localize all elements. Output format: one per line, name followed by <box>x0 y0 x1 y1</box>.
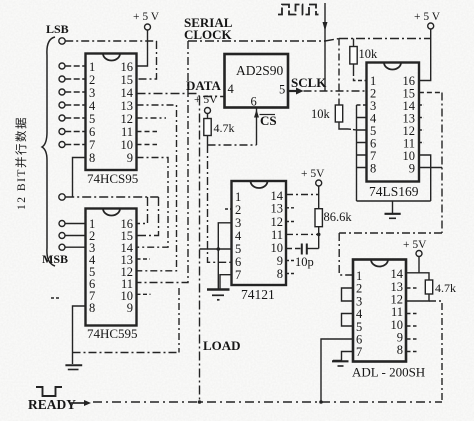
chip U5 74121 body <box>232 181 287 285</box>
wire U6 pin6 to READY rail <box>321 339 353 402</box>
ground U5 <box>207 288 230 290</box>
chip U2 pin numbers left 1-8 <box>89 217 96 315</box>
svg-text:14: 14 <box>391 267 404 281</box>
svg-text:MSB: MSB <box>42 252 68 266</box>
resistor R5 4.7k <box>425 280 432 294</box>
wire +5V to U4 pin16 <box>419 29 431 80</box>
svg-text:3: 3 <box>235 216 241 230</box>
wire U1 pin8 down to serial node line <box>73 158 86 198</box>
stub U2 pin13 <box>137 258 151 260</box>
wire U5 pin7 to ground <box>220 275 232 289</box>
wire SCLK to U4 pin2 <box>304 90 367 92</box>
wire LSB to U1 pin15 <box>65 41 156 79</box>
svg-text:74121: 74121 <box>241 287 275 302</box>
arrow on CS wire <box>254 110 259 118</box>
chip U2 pin numbers right 16-9 <box>121 217 134 315</box>
wire U5 pin10 to capacitor <box>286 248 301 250</box>
svg-text:9: 9 <box>277 254 283 268</box>
svg-text:AD2S90: AD2S90 <box>236 63 284 78</box>
wire clock input drop with arrow <box>324 3 326 91</box>
svg-text:12: 12 <box>271 215 284 229</box>
svg-text:74HC595: 74HC595 <box>87 326 138 341</box>
stub U6 pin13 <box>407 287 417 289</box>
svg-text:13: 13 <box>121 99 134 113</box>
svg-text:5: 5 <box>235 242 241 256</box>
wire U6 pins4-5 bracket <box>342 314 354 327</box>
svg-text:LOAD: LOAD <box>203 338 241 353</box>
input terminals U2 pins 1-3 <box>59 221 65 251</box>
chip U3 pin numbers <box>228 82 286 109</box>
svg-text:9: 9 <box>127 151 133 165</box>
svg-text:+ 5 V: + 5 V <box>414 11 441 23</box>
svg-text:11: 11 <box>271 228 283 242</box>
wire U1 pin14 to AD2S90 pin4 (DATA) <box>137 94 225 97</box>
svg-text:4: 4 <box>89 99 96 113</box>
resistor R3 10k on clock line <box>338 39 340 106</box>
chip U5 pin numbers right 14-8 <box>271 189 284 281</box>
svg-text:9: 9 <box>127 301 133 315</box>
svg-text:6: 6 <box>251 95 257 109</box>
ground U2 <box>65 364 82 366</box>
wire vertical bus v1 U1 pin9 to U2 pin14 <box>137 158 169 248</box>
chip U5 pin numbers left 1-7 <box>235 190 242 282</box>
svg-text:+ 5 V: + 5 V <box>133 11 160 23</box>
svg-text:2: 2 <box>89 73 95 87</box>
stub U1 pin10 <box>137 144 158 146</box>
resistor R2 10k pullup U4 pin1 <box>353 39 355 47</box>
junction LOAD/READY <box>198 400 202 404</box>
stub U2 pin10 <box>137 293 151 295</box>
stub U5 pin12 <box>286 221 294 223</box>
svg-text:12: 12 <box>121 112 134 126</box>
wire READY rail <box>93 401 442 403</box>
svg-text:8: 8 <box>89 301 95 315</box>
chip U6 pin numbers right 14-8 <box>391 267 404 357</box>
wire U6 pins2-3 bracket <box>342 288 354 301</box>
svg-text:74LS169: 74LS169 <box>369 184 419 199</box>
brace for parallel data bus <box>42 37 55 266</box>
svg-text:DATA: DATA <box>186 78 222 93</box>
junction U5 pin3/pin5 <box>217 247 221 251</box>
node 12-bit parallel data label <box>14 116 28 210</box>
wire right vertical v8 down to U6 pin1 <box>339 93 442 276</box>
stub U6 pin8 <box>407 351 417 353</box>
wire serial clock vertical v3 to U2 pin11 <box>137 41 189 283</box>
svg-text:READY: READY <box>28 397 76 412</box>
svg-text:9: 9 <box>409 162 415 176</box>
svg-text:10p: 10p <box>295 255 314 269</box>
wire U5 pin3 to ground <box>218 223 231 289</box>
svg-text:74HCS95: 74HCS95 <box>87 171 138 186</box>
capacitor C1 10p <box>302 244 307 255</box>
wire +5V to U6 pin14 <box>406 257 419 273</box>
wire U3 pin5 SCLK output with arrow <box>288 90 296 92</box>
svg-text:5: 5 <box>279 83 285 97</box>
stubs U4 pins 14-11 <box>419 105 424 143</box>
stub U5 pin2 <box>225 208 232 210</box>
svg-text:7: 7 <box>235 268 241 282</box>
wire R2 to U4 pin1 <box>354 72 367 81</box>
svg-text:4: 4 <box>235 229 242 243</box>
wire serial clock rail <box>188 39 431 42</box>
stub U1 pin12 <box>137 117 167 119</box>
chip U6 pin numbers left 1-7 <box>356 269 363 359</box>
svg-text:2: 2 <box>235 203 241 217</box>
svg-text:86.6k: 86.6k <box>324 210 353 224</box>
svg-text:10k: 10k <box>311 107 331 121</box>
wire U4 pins 3-8 common bus <box>357 104 367 106</box>
wire U6 pin7 to ground <box>333 352 353 361</box>
svg-text:7: 7 <box>356 345 362 359</box>
chip U1 pin numbers right 16-9 <box>121 60 134 165</box>
wire DATA/LOAD vertical v5 <box>199 97 201 403</box>
wire CS horizontal to pullup <box>208 144 257 146</box>
node LSB input terminal <box>59 38 65 44</box>
wires input terminals to U1 <box>65 66 85 145</box>
node serial cascade terminal <box>59 194 65 200</box>
chip U2 74HC595 body <box>86 209 137 326</box>
svg-text:8: 8 <box>277 267 283 281</box>
stub U6 pin9 <box>407 338 417 340</box>
svg-text:4.7k: 4.7k <box>214 121 235 135</box>
stub U2 pin7 <box>51 297 59 299</box>
svg-text:+ 5V: + 5V <box>194 94 218 106</box>
svg-text:2: 2 <box>356 282 362 296</box>
wire ground rail under U4 <box>357 200 431 202</box>
svg-text:1: 1 <box>235 190 241 204</box>
svg-text:14: 14 <box>121 86 134 100</box>
wire CS line v6 down to 74121 pin6 <box>208 145 232 262</box>
svg-text:10: 10 <box>271 241 284 255</box>
svg-text:5: 5 <box>89 112 95 126</box>
svg-text:11: 11 <box>391 305 403 319</box>
wire U5 pin11 to R4 <box>286 233 319 235</box>
stub U6 pin11 <box>407 313 417 315</box>
svg-text:1: 1 <box>89 60 95 74</box>
chip U4 pin numbers right 16-9 <box>403 74 416 176</box>
ground U4 <box>392 201 394 213</box>
junction R4/pin11 <box>317 233 321 237</box>
wire cascade line to U2 pins 16,15 <box>65 197 158 236</box>
wire ground rail under U2 <box>73 352 180 354</box>
wire U4 pin10 to ground rail <box>419 155 431 201</box>
stub U5 pin8 <box>286 273 294 275</box>
svg-text:13: 13 <box>271 202 284 216</box>
wire U2 pin8 to ground <box>73 306 86 364</box>
svg-text:8: 8 <box>89 151 95 165</box>
chip U3 AD2S90 body <box>225 54 289 108</box>
stub U6 pin10 <box>407 325 417 327</box>
svg-text:10k: 10k <box>359 47 379 61</box>
chip U1 74HC595 body <box>86 54 137 171</box>
chip U4 74LS169 body <box>367 63 420 182</box>
wire vertical v2b continuation to ground rail <box>178 288 180 353</box>
svg-text:3: 3 <box>89 86 95 100</box>
svg-text:4: 4 <box>356 307 363 321</box>
svg-text:+ 5V: + 5V <box>301 168 325 180</box>
resistor R4 86.6k <box>315 209 322 227</box>
wires input terminals to U2 <box>65 224 85 248</box>
svg-text:12 BIT并行数据: 12 BIT并行数据 <box>14 116 28 210</box>
wire U4 pin15 and pin9 to right vertical <box>419 92 442 94</box>
svg-text:6: 6 <box>89 125 95 139</box>
svg-text:LSB: LSB <box>46 22 69 36</box>
clock waveform symbol <box>278 5 319 15</box>
stub U5 pin9 <box>286 260 294 262</box>
svg-text:ADL - 200SH: ADL - 200SH <box>352 365 425 380</box>
svg-text:4.7k: 4.7k <box>435 281 456 295</box>
svg-text:+ 5V: + 5V <box>403 239 427 251</box>
stub U1 pin11 <box>137 131 158 133</box>
wire CS from U3 pin6 down <box>256 108 258 145</box>
chip U4 pin numbers left 1-8 <box>370 74 377 176</box>
wire vertical bus v2 U1 pin13 to U2 pin12 <box>137 105 177 271</box>
svg-text:7: 7 <box>89 138 95 152</box>
wire U6 pin12 node to READY rail <box>429 301 442 402</box>
junction U6 pin6/READY <box>319 400 323 404</box>
svg-text:15: 15 <box>121 73 134 87</box>
wire U5 pin5 to LOAD line <box>200 248 232 250</box>
input terminals U1 pins 1-7 <box>59 63 65 148</box>
wire U5 pin14 to +5V <box>286 194 319 196</box>
svg-text:8: 8 <box>397 343 403 357</box>
wire +5V node to R5 <box>419 273 429 280</box>
svg-text:6: 6 <box>235 255 241 269</box>
stub U5 pin13 <box>286 207 296 209</box>
svg-text:11: 11 <box>121 125 133 139</box>
chip U6 ADL-200SH body <box>353 260 406 362</box>
svg-text:10: 10 <box>121 138 134 152</box>
svg-text:CS: CS <box>260 113 277 128</box>
wire +5V to U1 pin16 <box>137 30 148 66</box>
wire READY arrow <box>71 402 85 404</box>
svg-text:4: 4 <box>228 82 235 96</box>
svg-text:CLOCK: CLOCK <box>184 27 233 42</box>
svg-text:16: 16 <box>121 60 134 74</box>
READY pulse waveform <box>36 387 62 396</box>
chip U1 pin numbers left 1-8 <box>89 60 96 165</box>
resistor R1 4.7k <box>207 114 209 145</box>
ground U6 <box>332 360 349 362</box>
svg-text:8: 8 <box>370 162 376 176</box>
